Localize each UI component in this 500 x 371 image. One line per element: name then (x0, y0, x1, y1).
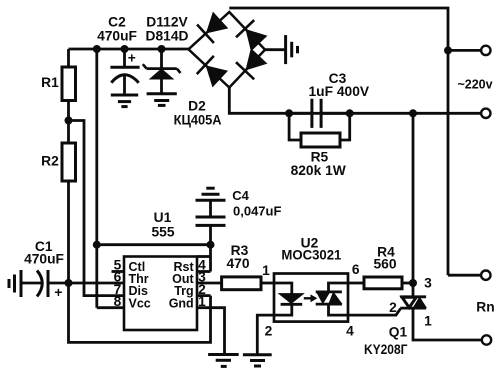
capacitor C1 curved plate (37, 271, 42, 297)
svg-text:KY208Г: KY208Г (364, 342, 408, 357)
svg-text:560: 560 (373, 257, 396, 272)
wire into C3 (289, 112, 312, 115)
wire U2 pin 2 to ground (257, 315, 274, 355)
capacitor C1 straight plate (47, 270, 50, 297)
wire top rail from bridge to right side (229, 8, 448, 275)
node R1/R2 junction (65, 117, 73, 125)
svg-text:2: 2 (265, 324, 273, 339)
terminal load top (481, 271, 490, 280)
capacitor C4 lower lead (209, 225, 212, 244)
triac Q1 right triangle (413, 297, 426, 307)
capacitor C4 lead (209, 200, 212, 217)
U2 internal LED wiring (274, 283, 292, 294)
U2 internal triac wiring (329, 283, 349, 292)
svg-text:КЦ405А: КЦ405А (174, 113, 222, 128)
triac Q1 top bar (400, 295, 426, 298)
node Rst branch (93, 241, 101, 249)
svg-text:U1: U1 (154, 210, 172, 225)
wire 555 pin 1 Gnd to ground (197, 308, 225, 355)
wire C3 right node down to R5 (340, 113, 350, 140)
zener lower lead (160, 79, 163, 94)
svg-text:+: + (128, 51, 136, 66)
wire to terminal 3 (448, 274, 482, 277)
U2 triac lower lead (329, 304, 349, 315)
wire AC mid rail from bridge bottom to terminal 2 (229, 88, 481, 114)
U2 coupling arrow (304, 297, 312, 299)
U2 LED lower lead (274, 304, 292, 315)
U2 triac bottom bar (316, 303, 342, 306)
wire left DC rail (69, 48, 189, 51)
svg-text:470: 470 (226, 256, 249, 271)
node R4 / triac anode (409, 279, 417, 287)
op IC U1 555 body (124, 257, 197, 331)
inverted ground above C4 (206, 187, 214, 190)
svg-text:4: 4 (346, 324, 354, 339)
U2 triac top bar (316, 290, 342, 293)
ground below C2 (111, 94, 138, 97)
triac Q1 left triangle (402, 297, 416, 307)
wire R1 to R2 (67, 101, 70, 144)
zener diode D814D lead (160, 49, 163, 69)
svg-text:470uF: 470uF (24, 252, 64, 267)
wire C4 node down to 555 pin 4 tab (209, 245, 212, 272)
triac Q1 lower lead (413, 308, 482, 340)
svg-text:D814D: D814D (146, 29, 189, 44)
capacitor C4 plates (196, 216, 226, 219)
wire Vcc into 555 pin 8 (97, 306, 124, 309)
resistor R5 (301, 133, 340, 147)
node AC rail / C3 right (346, 109, 354, 117)
wire R1/R2 junction to Dis line (69, 121, 125, 296)
triac Q1 bottom bar (400, 307, 426, 310)
svg-text:1: 1 (262, 263, 270, 278)
node DC rail / Vcc line (93, 45, 101, 53)
svg-text:8: 8 (114, 294, 122, 309)
svg-text:R1: R1 (41, 75, 59, 90)
capacitor C3 plates (310, 99, 313, 128)
bridge diode top-right (236, 20, 254, 37)
ground left of C1 (20, 270, 23, 297)
555 pin 5 stub (112, 270, 125, 273)
wire U2 pin 6 to R4 (348, 282, 364, 285)
capacitor C2 lower lead (123, 76, 126, 96)
svg-text:555: 555 (151, 225, 174, 240)
wire R2 down to C1 node (67, 181, 70, 283)
wire AC rail down to triac (412, 113, 415, 296)
svg-text:470uF: 470uF (97, 29, 137, 44)
svg-text:R2: R2 (41, 154, 59, 169)
bridge diode bottom-right (236, 62, 254, 79)
svg-text:6: 6 (352, 262, 360, 277)
optocoupler U2 body (274, 274, 348, 322)
U2 LED cathode bar (281, 303, 303, 306)
svg-text:D2: D2 (188, 99, 206, 114)
ground below U2 pin 2 (243, 353, 272, 356)
ground below 555 pin 1 (208, 353, 239, 356)
wire R3 to U2 pin 1 (261, 282, 274, 285)
node C4 / Rst junction (207, 241, 215, 249)
svg-text:MOC3021: MOC3021 (281, 247, 341, 262)
bridge diode bottom-left (197, 56, 214, 74)
terminal ~220v top (481, 46, 490, 55)
terminal ~220v bottom (481, 109, 490, 118)
wire U2 pin 4 to triac gate (348, 309, 401, 316)
resistor R1 (62, 67, 76, 101)
wire 555 Out pin 3 to R3 (197, 282, 222, 285)
svg-text:1: 1 (424, 313, 432, 328)
svg-text:0,047uF: 0,047uF (233, 204, 281, 219)
capacitor C1 right lead (48, 282, 69, 285)
wire to terminal 1 (448, 49, 482, 52)
svg-text:Rn: Rn (476, 300, 494, 315)
node C1 / Thr junction (65, 279, 73, 287)
wire R4 to triac node (402, 282, 413, 285)
wire bridge right vertex to ground (265, 48, 286, 51)
svg-text:D112V: D112V (146, 15, 188, 30)
wire C3 left node down to R5 (289, 113, 301, 140)
svg-text:~220v: ~220v (457, 78, 492, 92)
wire Rst line to C4 node (97, 243, 211, 246)
terminal load bottom (482, 335, 491, 344)
zener cathode bar (147, 67, 177, 70)
ground below zener (147, 92, 177, 95)
svg-text:3: 3 (424, 276, 432, 291)
resistor R3 (222, 277, 261, 290)
node AC rail / C3 left (285, 109, 293, 117)
wire DC rail down to R1 (67, 49, 70, 67)
svg-text:Vcc: Vcc (129, 296, 151, 310)
zener triangle (150, 69, 173, 79)
svg-text:1uF 400V: 1uF 400V (309, 84, 370, 99)
svg-text:Q1: Q1 (389, 325, 408, 340)
svg-text:C4: C4 (232, 188, 249, 203)
node DC rail / C2 (121, 45, 129, 53)
node junction top rail / terminal 1 (444, 46, 452, 54)
resistor R4 (364, 277, 402, 289)
wire Thr to 555 pin 6 (69, 282, 125, 285)
capacitor C1 lead (21, 282, 41, 285)
resistor R2 (62, 143, 76, 181)
svg-text:C2: C2 (108, 15, 126, 30)
ground right of bridge (284, 35, 287, 64)
capacitor C2 plates (110, 66, 139, 69)
node DC rail / zener (158, 45, 166, 53)
wire Vcc vertical line (95, 49, 98, 308)
capacitor C2 lead (123, 49, 126, 67)
svg-text:820k 1W: 820k 1W (291, 163, 347, 178)
svg-text:Gnd: Gnd (169, 296, 194, 310)
bridge diode top-left (197, 25, 214, 43)
svg-text:2: 2 (389, 300, 397, 315)
node AC rail / triac line (409, 109, 417, 117)
555 right pin tab lines (197, 255, 211, 258)
bridge diamond edges (189, 12, 266, 88)
U2 triac left triangle (317, 292, 330, 303)
wire C1 node down and along bottom to Trg (69, 283, 211, 342)
U2 triac right triangle (329, 292, 342, 303)
svg-text:+: + (54, 285, 62, 300)
U2 LED triangle (279, 294, 303, 304)
